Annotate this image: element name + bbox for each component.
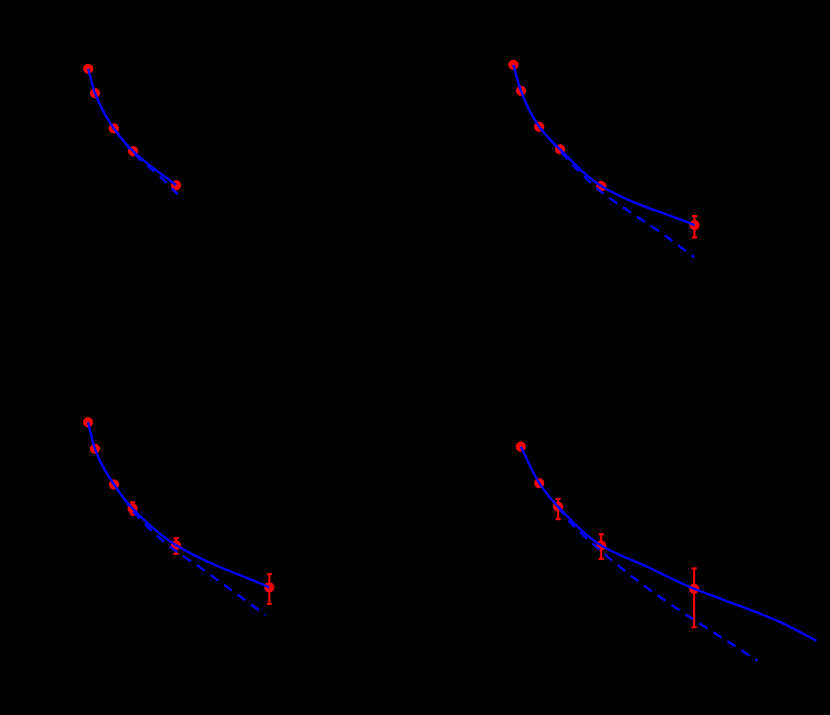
data point bottom-right-2 [534,478,544,488]
data point top-left-1 [83,64,93,74]
fit curve solid (bottom-right) [521,447,817,641]
error bar BR-4 [599,534,604,559]
data point bottom-right-5 [689,584,699,594]
data point top-right-5 [596,181,606,191]
data point bottom-left-3 [109,479,119,489]
data point top-right-4 [555,144,565,154]
data point top-left-2 [90,88,100,98]
data point top-right-1 [508,60,518,70]
data point top-left-4 [128,146,138,156]
data point bottom-left-5 [171,540,181,550]
data point top-right-2 [516,86,526,96]
data point bottom-left-4 [128,503,138,513]
fit curve dashed (top-left) [114,128,178,194]
data point top-right-3 [534,122,544,132]
fit curve dashed (top-right) [539,127,694,257]
data point bottom-left-6 [264,582,274,592]
error bar BL-4 [130,502,135,514]
data point bottom-left-2 [90,444,100,454]
error bar BL-5 [173,538,178,554]
error bar BR-3 [556,499,561,519]
fit curve solid (bottom-left) [88,422,269,587]
data point bottom-left-1 [83,417,93,427]
error bar BR-5 [692,568,697,627]
data point top-left-5 [171,180,181,190]
fit curve solid (top-right) [513,65,694,225]
subplot top-right [508,60,699,257]
fit curve dashed (bottom-right) [558,507,757,661]
data point top-left-3 [109,123,119,133]
data point bottom-right-4 [596,540,606,550]
error bar BL-6 [267,574,272,604]
subplot bottom-left [83,417,275,615]
data point bottom-right-1 [516,442,526,452]
data point bottom-right-3 [553,502,563,512]
fit curve dashed (bottom-left) [114,485,266,616]
data point top-right-6 [689,220,699,230]
subplot top-left [83,64,181,195]
subplot bottom-right [516,442,817,661]
error bar TR-6 [692,216,697,237]
fit curve solid (top-left) [88,69,176,185]
